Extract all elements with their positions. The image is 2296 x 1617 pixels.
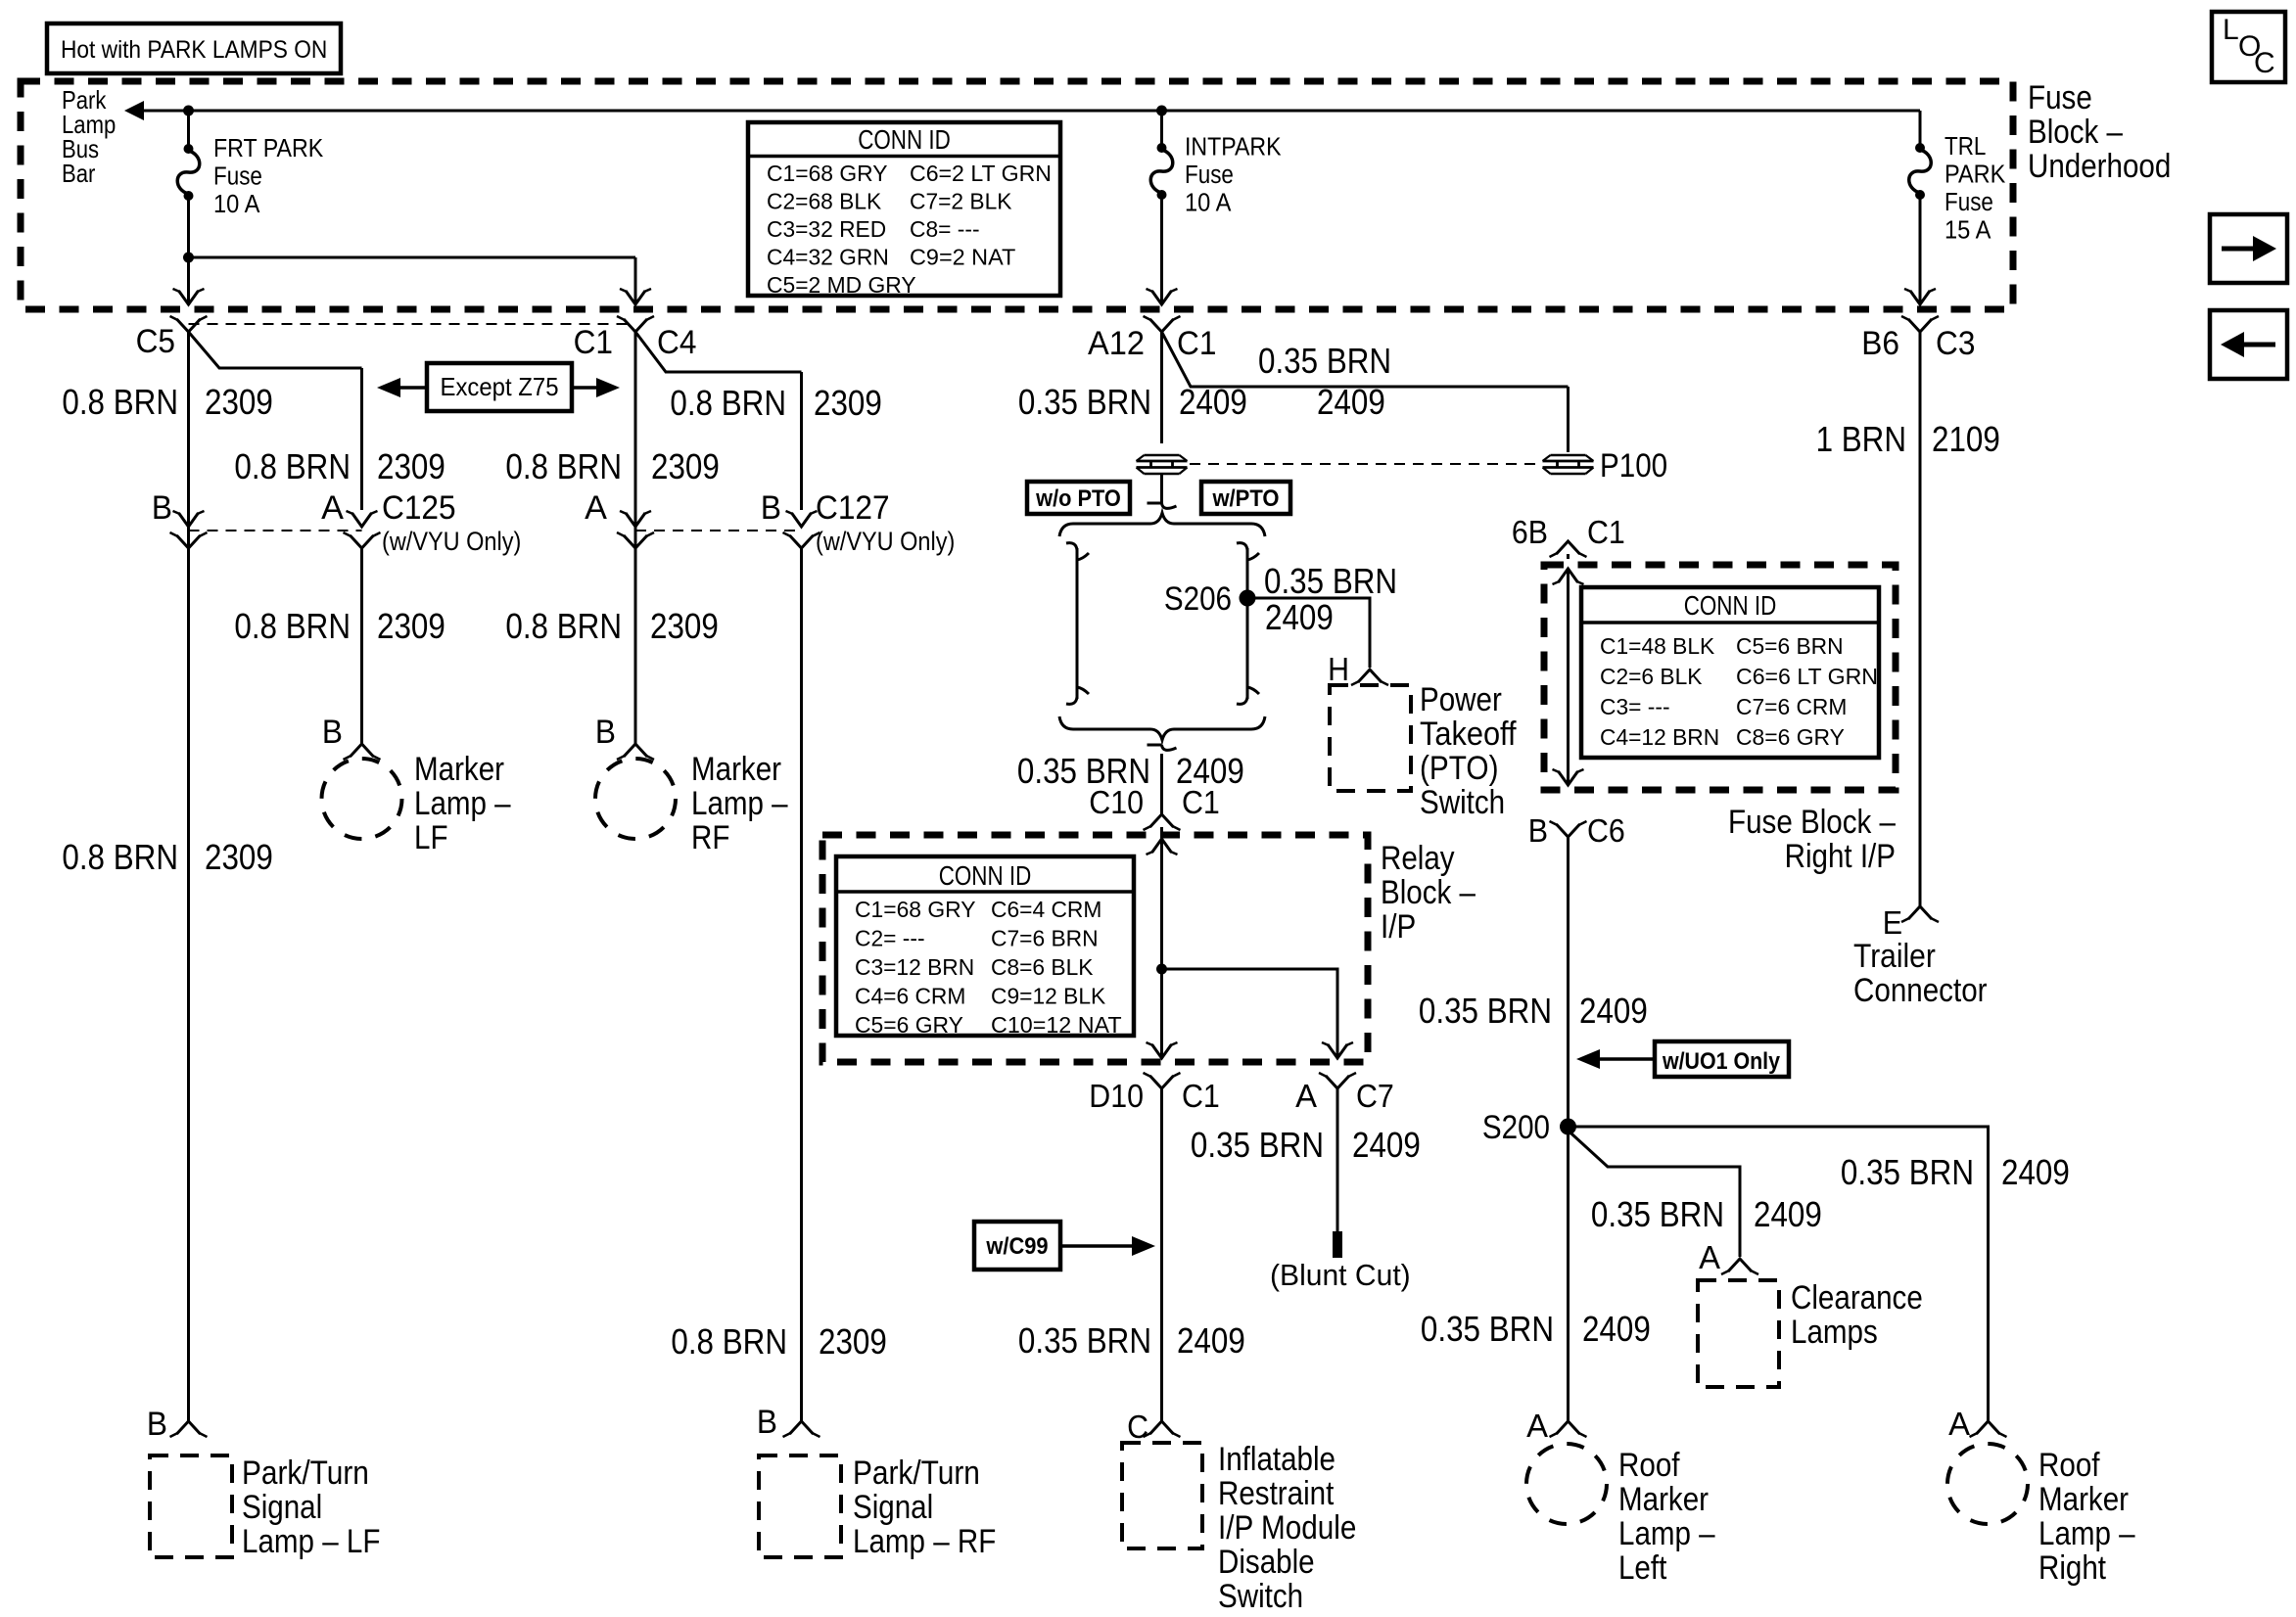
- svg-text:2309: 2309: [814, 383, 882, 423]
- svg-text:B: B: [595, 714, 616, 751]
- svg-text:B: B: [757, 1404, 777, 1441]
- svg-text:C4=32 GRN: C4=32 GRN: [767, 245, 889, 270]
- svg-text:C125: C125: [382, 489, 456, 527]
- svg-text:2409: 2409: [1265, 597, 1334, 637]
- svg-text:Lamp – RF: Lamp – RF: [853, 1523, 996, 1560]
- svg-text:LF: LF: [414, 819, 448, 856]
- svg-text:C7: C7: [1356, 1078, 1394, 1114]
- svg-text:C: C: [1127, 1409, 1148, 1445]
- svg-text:C1=48 BLK: C1=48 BLK: [1600, 633, 1715, 659]
- svg-text:B: B: [1528, 812, 1548, 849]
- svg-text:C1=68 GRY: C1=68 GRY: [855, 897, 976, 922]
- svg-text:(w/VYU Only): (w/VYU Only): [816, 527, 955, 556]
- svg-text:2309: 2309: [377, 446, 445, 486]
- svg-text:C1: C1: [1182, 1078, 1220, 1114]
- svg-text:INTPARK: INTPARK: [1185, 134, 1282, 162]
- svg-text:RF: RF: [691, 819, 729, 856]
- svg-text:1 BRN: 1 BRN: [1816, 419, 1906, 459]
- svg-text:2409: 2409: [2001, 1152, 2070, 1192]
- svg-text:2409: 2409: [1579, 991, 1648, 1031]
- svg-text:D10: D10: [1089, 1078, 1144, 1114]
- svg-text:C2=68 BLK: C2=68 BLK: [767, 189, 882, 214]
- svg-text:C10=12 NAT: C10=12 NAT: [991, 1012, 1122, 1038]
- svg-text:2309: 2309: [650, 606, 719, 646]
- svg-text:Lamp –: Lamp –: [1618, 1515, 1715, 1552]
- svg-text:6B: 6B: [1512, 514, 1548, 550]
- svg-text:Marker: Marker: [1618, 1481, 1709, 1518]
- svg-text:C3: C3: [1936, 325, 1975, 362]
- svg-text:Left: Left: [1618, 1549, 1667, 1587]
- svg-text:0.8 BRN: 0.8 BRN: [671, 1321, 787, 1362]
- svg-text:C7=6 CRM: C7=6 CRM: [1736, 694, 1847, 719]
- svg-text:0.35 BRN: 0.35 BRN: [1018, 1320, 1151, 1361]
- svg-text:Lamp – LF: Lamp – LF: [242, 1523, 380, 1560]
- svg-text:C5=2 MD GRY: C5=2 MD GRY: [767, 272, 916, 298]
- svg-text:0.8 BRN: 0.8 BRN: [62, 837, 178, 877]
- svg-text:Right I/P: Right I/P: [1785, 838, 1896, 875]
- svg-text:C8= ---: C8= ---: [910, 216, 980, 242]
- svg-text:(w/VYU Only): (w/VYU Only): [382, 527, 521, 556]
- svg-text:0.35 BRN: 0.35 BRN: [1191, 1125, 1324, 1165]
- svg-text:Restraint: Restraint: [1218, 1475, 1335, 1512]
- svg-text:0.35 BRN: 0.35 BRN: [1419, 991, 1552, 1031]
- svg-text:Right: Right: [2038, 1549, 2106, 1587]
- svg-text:Power: Power: [1420, 681, 1502, 718]
- svg-text:PARK: PARK: [1945, 162, 2005, 189]
- svg-text:Fuse: Fuse: [2028, 79, 2092, 116]
- svg-text:Lamp –: Lamp –: [2038, 1515, 2135, 1552]
- svg-text:0.8 BRN: 0.8 BRN: [670, 383, 786, 423]
- svg-text:Clearance: Clearance: [1791, 1279, 1923, 1317]
- svg-text:B: B: [322, 714, 343, 751]
- svg-text:A: A: [1699, 1239, 1720, 1275]
- svg-text:w/PTO: w/PTO: [1212, 485, 1280, 512]
- svg-text:Park/Turn: Park/Turn: [853, 1455, 980, 1492]
- svg-text:10 A: 10 A: [1185, 190, 1231, 217]
- svg-text:C1: C1: [1587, 514, 1625, 550]
- svg-text:C3=32 RED: C3=32 RED: [767, 216, 886, 242]
- svg-text:Lamp –: Lamp –: [691, 785, 788, 822]
- svg-text:0.35 BRN: 0.35 BRN: [1018, 382, 1151, 422]
- svg-text:0.35 BRN: 0.35 BRN: [1421, 1309, 1554, 1349]
- svg-text:C4=12 BRN: C4=12 BRN: [1600, 724, 1719, 750]
- svg-text:S206: S206: [1164, 580, 1232, 618]
- svg-text:2409: 2409: [1582, 1309, 1651, 1349]
- svg-text:C127: C127: [816, 489, 890, 527]
- svg-text:FRT PARK: FRT PARK: [213, 135, 323, 162]
- svg-text:2409: 2409: [1179, 382, 1247, 422]
- svg-text:Fuse Block –: Fuse Block –: [1728, 804, 1896, 841]
- svg-text:I/P Module: I/P Module: [1218, 1509, 1356, 1547]
- svg-text:0.8 BRN: 0.8 BRN: [234, 606, 351, 646]
- svg-text:0.8 BRN: 0.8 BRN: [505, 446, 622, 486]
- svg-text:C6=2 LT GRN: C6=2 LT GRN: [910, 161, 1052, 186]
- svg-text:P100: P100: [1600, 447, 1667, 485]
- svg-text:Switch: Switch: [1420, 784, 1505, 821]
- svg-text:E: E: [1883, 904, 1902, 941]
- svg-text:Signal: Signal: [242, 1489, 322, 1526]
- svg-text:2409: 2409: [1317, 382, 1385, 422]
- svg-text:A: A: [1526, 1408, 1548, 1444]
- svg-text:C3= ---: C3= ---: [1600, 694, 1670, 719]
- svg-text:C1: C1: [574, 324, 613, 361]
- svg-text:2309: 2309: [819, 1321, 887, 1362]
- svg-text:Except Z75: Except Z75: [441, 372, 559, 401]
- svg-text:15 A: 15 A: [1945, 217, 1991, 245]
- svg-text:Switch: Switch: [1218, 1578, 1303, 1615]
- svg-text:Marker: Marker: [414, 751, 504, 788]
- svg-text:C: C: [2254, 47, 2275, 79]
- svg-text:TRL: TRL: [1945, 133, 1986, 161]
- svg-text:2409: 2409: [1352, 1125, 1421, 1165]
- svg-text:2409: 2409: [1177, 1320, 1245, 1361]
- svg-text:A: A: [321, 489, 344, 527]
- svg-text:Bar: Bar: [62, 159, 96, 188]
- svg-text:10 A: 10 A: [213, 191, 259, 218]
- svg-text:C1: C1: [1177, 325, 1216, 362]
- svg-text:w/C99: w/C99: [985, 1233, 1048, 1260]
- svg-text:A: A: [1295, 1078, 1317, 1114]
- svg-text:Marker: Marker: [691, 751, 781, 788]
- svg-text:Underhood: Underhood: [2028, 148, 2171, 185]
- svg-text:B: B: [761, 489, 781, 527]
- svg-text:C2=6 BLK: C2=6 BLK: [1600, 664, 1703, 689]
- svg-text:0.8 BRN: 0.8 BRN: [234, 446, 351, 486]
- svg-text:C4: C4: [657, 324, 696, 361]
- svg-text:C4=6 CRM: C4=6 CRM: [855, 984, 965, 1009]
- svg-text:C8=6 BLK: C8=6 BLK: [991, 954, 1094, 980]
- svg-text:0.35 BRN: 0.35 BRN: [1591, 1194, 1724, 1234]
- svg-text:CONN ID: CONN ID: [939, 860, 1032, 891]
- svg-text:Fuse: Fuse: [1185, 162, 1234, 189]
- svg-text:Park/Turn: Park/Turn: [242, 1455, 369, 1492]
- svg-text:Lamps: Lamps: [1791, 1314, 1878, 1351]
- svg-text:B: B: [152, 489, 172, 527]
- svg-text:Trailer: Trailer: [1853, 938, 1936, 975]
- svg-text:w/UO1 Only: w/UO1 Only: [1662, 1048, 1781, 1075]
- svg-text:I/P: I/P: [1381, 908, 1416, 946]
- svg-text:S200: S200: [1482, 1109, 1550, 1146]
- svg-text:0.35 BRN: 0.35 BRN: [1264, 561, 1397, 601]
- svg-text:C9=12 BLK: C9=12 BLK: [991, 984, 1106, 1009]
- svg-text:2409: 2409: [1754, 1194, 1822, 1234]
- svg-text:0.8 BRN: 0.8 BRN: [505, 606, 622, 646]
- svg-text:B: B: [147, 1406, 167, 1443]
- svg-text:2309: 2309: [205, 837, 273, 877]
- svg-text:0.8 BRN: 0.8 BRN: [62, 382, 178, 422]
- svg-text:C5=6 GRY: C5=6 GRY: [855, 1012, 963, 1038]
- svg-text:Block –: Block –: [2028, 114, 2123, 151]
- svg-text:C2= ---: C2= ---: [855, 926, 925, 951]
- svg-text:Roof: Roof: [1618, 1447, 1680, 1484]
- svg-text:Fuse: Fuse: [213, 163, 262, 191]
- svg-text:2309: 2309: [377, 606, 445, 646]
- svg-text:A12: A12: [1088, 325, 1145, 362]
- svg-text:Signal: Signal: [853, 1489, 933, 1526]
- svg-text:w/o PTO: w/o PTO: [1035, 485, 1121, 512]
- svg-text:Disable: Disable: [1218, 1544, 1315, 1581]
- svg-text:C1=68 GRY: C1=68 GRY: [767, 161, 888, 186]
- svg-text:0.35 BRN: 0.35 BRN: [1017, 751, 1150, 791]
- svg-text:C9=2 NAT: C9=2 NAT: [910, 245, 1015, 270]
- svg-text:Lamp –: Lamp –: [414, 785, 511, 822]
- svg-text:C5=6 BRN: C5=6 BRN: [1736, 633, 1844, 659]
- svg-text:CONN ID: CONN ID: [1684, 590, 1777, 621]
- svg-text:0.35 BRN: 0.35 BRN: [1258, 341, 1391, 381]
- svg-text:C6: C6: [1587, 812, 1625, 849]
- svg-text:Hot with PARK LAMPS ON: Hot with PARK LAMPS ON: [61, 36, 327, 64]
- svg-text:(Blunt Cut): (Blunt Cut): [1270, 1258, 1411, 1292]
- svg-text:Marker: Marker: [2038, 1481, 2129, 1518]
- svg-text:CONN ID: CONN ID: [858, 124, 951, 155]
- svg-text:(PTO): (PTO): [1420, 750, 1499, 787]
- svg-text:C6=6 LT GRN: C6=6 LT GRN: [1736, 664, 1878, 689]
- svg-text:C7=2 BLK: C7=2 BLK: [910, 189, 1012, 214]
- svg-text:A: A: [1948, 1406, 1970, 1442]
- svg-text:H: H: [1328, 651, 1349, 687]
- svg-text:Takeoff: Takeoff: [1420, 716, 1517, 753]
- svg-text:Inflatable: Inflatable: [1218, 1441, 1335, 1478]
- svg-text:C8=6 GRY: C8=6 GRY: [1736, 724, 1845, 750]
- svg-text:C7=6 BRN: C7=6 BRN: [991, 926, 1099, 951]
- svg-text:Block –: Block –: [1381, 874, 1476, 911]
- svg-text:B6: B6: [1861, 325, 1899, 362]
- svg-text:C5: C5: [136, 323, 175, 360]
- svg-text:2309: 2309: [205, 382, 273, 422]
- svg-text:Relay: Relay: [1381, 840, 1455, 877]
- svg-text:2109: 2109: [1932, 419, 2000, 459]
- svg-text:2309: 2309: [651, 446, 720, 486]
- svg-text:0.35 BRN: 0.35 BRN: [1841, 1152, 1974, 1192]
- svg-text:C6=4 CRM: C6=4 CRM: [991, 897, 1101, 922]
- svg-text:C3=12 BRN: C3=12 BRN: [855, 954, 974, 980]
- svg-text:2409: 2409: [1176, 751, 1244, 791]
- svg-text:Fuse: Fuse: [1945, 189, 1993, 216]
- svg-text:Roof: Roof: [2038, 1447, 2100, 1484]
- svg-text:L: L: [2223, 14, 2239, 46]
- svg-text:Connector: Connector: [1853, 972, 1988, 1009]
- svg-text:A: A: [585, 489, 607, 527]
